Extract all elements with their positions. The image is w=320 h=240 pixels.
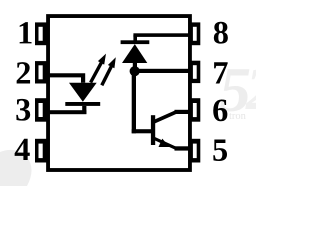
pin number 6 (213, 99, 227, 121)
pin 1 stub (35, 22, 48, 45)
pin 6 stub (189, 98, 200, 122)
photodiode cathode riser (133, 35, 137, 41)
transistor collector diagonal (154, 112, 177, 122)
pin 8 stub (189, 22, 200, 45)
svg-text:tron: tron (229, 111, 247, 122)
wire photodiode to junction (133, 62, 137, 71)
pin 2 stub (35, 61, 48, 83)
emitter arrowhead (159, 139, 170, 147)
junction dot (130, 66, 140, 76)
pin 5 stub (189, 139, 200, 163)
pin 7 stub (189, 61, 200, 83)
pin number 8 (214, 22, 228, 44)
watermark gray wash bottom-left (0, 150, 32, 186)
pin number 7 (214, 62, 228, 83)
LED D1 cathode bar (65, 102, 100, 106)
wire junction to pin7 (135, 69, 191, 73)
wire pin2 to LED anode (48, 73, 85, 83)
photodiode D2 triangle (122, 44, 147, 63)
pin number 1 (20, 22, 32, 43)
transistor emitter diagonal (154, 138, 177, 148)
pin 4 stub (35, 139, 48, 163)
wire junction down to base (132, 70, 136, 133)
wire photodiode to pin8 (133, 33, 191, 37)
base wire (132, 129, 151, 133)
watermark big S squiggle (133, 83, 157, 108)
emitter wire to pin5 (175, 146, 192, 150)
LED D1 triangle (69, 83, 97, 102)
wire to pin3 (48, 110, 86, 114)
light arrow 1 (91, 54, 106, 83)
svg-text:2: 2 (245, 56, 256, 122)
photodiode D2 cathode bar (121, 40, 150, 44)
light arrow 2 (102, 57, 116, 85)
pin number 2 (17, 62, 30, 83)
IC body outline (48, 16, 190, 170)
pin number 3 (16, 99, 30, 121)
pin 3 stub (35, 98, 48, 122)
collector wire to pin6 (175, 110, 192, 114)
pin number 5 (213, 140, 227, 162)
transistor Q1 base bar (151, 115, 155, 145)
wire LED cathode down (82, 106, 86, 114)
pin number 4 (15, 139, 30, 160)
